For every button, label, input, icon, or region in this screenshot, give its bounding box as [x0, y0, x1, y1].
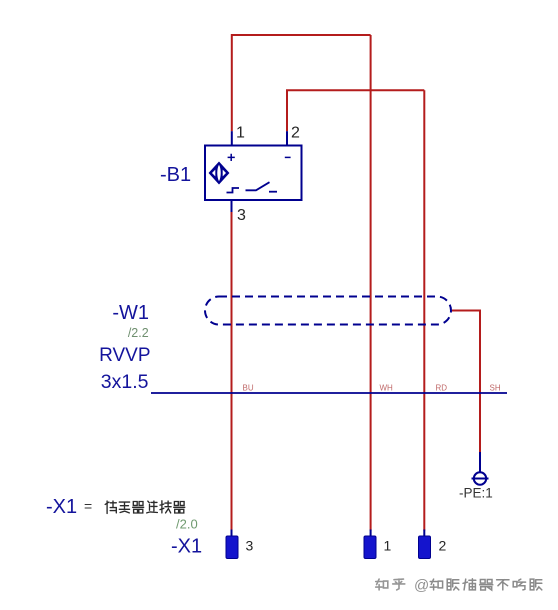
terminal 3 — [226, 536, 238, 559]
wire pin1 to top rail (red) — [232, 35, 371, 131]
svg-text:3: 3 — [246, 538, 254, 554]
svg-text:1: 1 — [384, 538, 392, 554]
svg-text:/2.2: /2.2 — [128, 326, 149, 340]
polarity + — [228, 154, 235, 161]
svg-text:=: = — [84, 498, 92, 514]
watermark zhihu logo text — [376, 579, 405, 590]
chinese label 传感器连接器 — [105, 501, 185, 514]
watermark username — [430, 579, 542, 590]
PE blue stub — [479, 452, 481, 472]
cable W1 shield stadium — [205, 297, 451, 325]
svg-text:3x1.5: 3x1.5 — [101, 371, 149, 393]
pin 2 blue stub — [286, 131, 288, 145]
svg-text:RVVP: RVVP — [99, 345, 150, 366]
pin 3 blue stub — [231, 200, 233, 212]
svg-text:/2.0: /2.0 — [176, 517, 198, 532]
svg-text:-PE:1: -PE:1 — [459, 486, 493, 501]
PE ground symbol — [472, 472, 489, 484]
svg-text:2: 2 — [291, 125, 300, 142]
sensor B1 box — [205, 146, 302, 201]
svg-text:SH: SH — [490, 384, 501, 393]
pin 1 blue stub — [231, 131, 233, 145]
sensor B1 switch contact symbol — [227, 182, 278, 192]
polarity - — [285, 156, 291, 158]
svg-text:BU: BU — [243, 384, 254, 393]
svg-text:2: 2 — [439, 538, 447, 554]
svg-text:WH: WH — [380, 384, 394, 393]
wire pin2 to second rail (red) — [287, 90, 424, 131]
svg-text:-B1: -B1 — [160, 164, 191, 186]
terminal 1 blue stub — [370, 530, 372, 538]
svg-text:RD: RD — [436, 384, 448, 393]
svg-text:-X1: -X1 — [171, 536, 202, 558]
terminal 1 — [364, 536, 376, 559]
cable definition line — [151, 392, 507, 394]
terminal 3 blue stub — [231, 530, 233, 538]
svg-text:1: 1 — [236, 125, 245, 142]
terminal 2 blue stub — [423, 530, 425, 538]
svg-text:-X1: -X1 — [46, 496, 77, 518]
sensor B1 proximity symbol — [210, 163, 229, 184]
svg-text:3: 3 — [237, 207, 246, 224]
wire pin3 down to terminal 3 (red) — [231, 212, 233, 531]
svg-text:-W1: -W1 — [112, 302, 149, 324]
wire second rail down to terminal 2 (red) — [423, 90, 425, 530]
terminal 2 — [419, 536, 431, 559]
svg-text:@: @ — [414, 577, 429, 594]
wire shield SH to PE (red) — [452, 311, 480, 454]
wire top rail down to terminal 1 (red) — [370, 35, 372, 531]
